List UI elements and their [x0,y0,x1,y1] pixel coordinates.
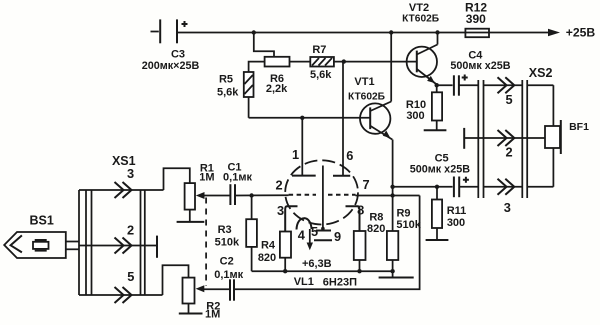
svg-text:0,1мк: 0,1мк [223,172,252,184]
svg-text:2: 2 [505,145,512,160]
svg-text:5: 5 [311,224,318,239]
svg-text:1М: 1М [199,172,214,184]
svg-text:820: 820 [367,223,385,235]
svg-text:+6,3В: +6,3В [302,258,332,270]
svg-text:VT2: VT2 [409,2,429,14]
svg-text:500мк х25В: 500мк х25В [450,60,510,72]
svg-text:R9: R9 [396,208,410,220]
svg-text:5,6k: 5,6k [217,87,239,99]
svg-text:6: 6 [346,148,353,163]
svg-text:BF1: BF1 [569,121,589,133]
svg-text:2: 2 [127,223,134,238]
svg-text:200мк×25В: 200мк×25В [142,60,200,72]
svg-text:0,1мк: 0,1мк [214,269,243,281]
svg-text:VT1: VT1 [354,76,374,88]
svg-text:КТ602Б: КТ602Б [348,92,385,103]
svg-text:6Н23П: 6Н23П [323,276,357,288]
svg-text:5: 5 [127,269,134,284]
svg-text:R4: R4 [261,240,276,252]
svg-text:510k: 510k [215,237,240,249]
svg-text:2,2k: 2,2k [266,83,288,95]
svg-text:7: 7 [362,177,369,192]
svg-text:2: 2 [275,178,282,193]
svg-text:XS2: XS2 [529,66,553,80]
svg-text:BS1: BS1 [30,214,54,228]
svg-text:300: 300 [406,110,424,122]
svg-text:C3: C3 [171,49,185,61]
svg-text:КТ602Б: КТ602Б [402,14,439,25]
svg-text:+25В: +25В [566,26,596,40]
svg-text:4: 4 [298,228,306,243]
svg-text:VL1: VL1 [294,276,314,288]
svg-text:C2: C2 [220,256,234,268]
svg-text:R11: R11 [447,205,467,217]
svg-text:820: 820 [258,252,276,264]
svg-text:8: 8 [357,203,364,218]
svg-text:3: 3 [504,200,511,215]
svg-text:300: 300 [447,217,465,229]
svg-text:5,6k: 5,6k [310,69,332,81]
svg-text:3: 3 [277,203,284,218]
svg-text:1: 1 [292,147,299,162]
svg-text:1М: 1М [205,308,220,320]
svg-text:R3: R3 [218,224,232,236]
svg-text:3: 3 [127,166,134,181]
svg-text:390: 390 [466,12,486,26]
svg-text:R8: R8 [369,211,383,223]
svg-text:510k: 510k [396,219,421,231]
svg-text:5: 5 [505,92,512,107]
svg-text:500мк х25В: 500мк х25В [410,164,470,176]
svg-text:R7: R7 [312,44,326,56]
svg-text:R5: R5 [219,74,233,86]
svg-text:9: 9 [334,229,341,244]
